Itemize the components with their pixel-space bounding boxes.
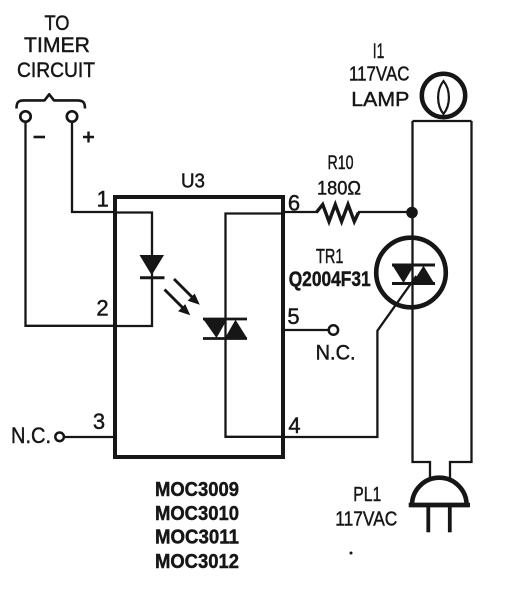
terminal N.C. pin 5: [329, 325, 338, 334]
lamp I1 filament loop: [438, 81, 449, 114]
wire pin 5: [283, 329, 329, 331]
terminal plus: [67, 111, 77, 121]
svg-text:PL1: PL1: [353, 483, 381, 506]
lamp I1 labels: [349, 40, 410, 111]
svg-text:LAMP: LAMP: [351, 88, 409, 111]
label plus: [83, 132, 94, 143]
plug PL1 base: [409, 503, 470, 508]
svg-text:MOC3012: MOC3012: [155, 550, 239, 573]
terminal N.C. pin 3: [55, 433, 64, 442]
wire pin 4: [283, 436, 379, 438]
svg-text:MOC3011: MOC3011: [155, 526, 239, 549]
triac TR1 bottom bar: [392, 282, 435, 285]
opto triac right triangle: [225, 320, 247, 338]
label TO TIMER CIRCUIT: [17, 12, 95, 82]
svg-text:5: 5: [287, 304, 299, 329]
plug PL1 left prong: [426, 507, 430, 532]
svg-text:117VAC: 117VAC: [349, 63, 410, 86]
svg-text:3: 3: [93, 409, 105, 434]
triac TR1 left triangle: [393, 266, 415, 284]
wire pin 3: [64, 436, 115, 438]
plug PL1 right prong: [448, 507, 452, 532]
LED D1 anode triangle: [140, 255, 165, 275]
opto triac symbol top bar: [203, 318, 247, 321]
svg-text:U3: U3: [181, 170, 205, 193]
triac TR1 right triangle: [413, 266, 435, 283]
svg-text:TR1: TR1: [316, 246, 344, 268]
svg-text:180Ω: 180Ω: [317, 178, 361, 200]
light emission arrow 1: [174, 279, 200, 305]
stray dot: [350, 552, 353, 555]
svg-text:4: 4: [288, 413, 300, 438]
wire pin 6 to resistor: [283, 211, 317, 213]
wire minus terminal to pin 2: [26, 123, 116, 326]
junction node dot: [406, 207, 418, 219]
optocoupler U3 box: [115, 197, 283, 457]
wire plus terminal to pin 1: [72, 123, 115, 213]
resistor R10 zigzag: [316, 205, 358, 222]
wire TR1 gate to pin 4: [377, 276, 416, 437]
wire LED loop inside U3: [115, 213, 152, 327]
svg-text:TO: TO: [45, 12, 70, 35]
lamp I1 circle: [422, 74, 465, 117]
plug PL1 labels: [335, 483, 397, 531]
svg-text:CIRCUIT: CIRCUIT: [17, 59, 95, 82]
wire lamp base: [413, 120, 472, 122]
svg-text:2: 2: [96, 296, 108, 321]
terminal minus: [20, 111, 30, 121]
svg-text:TIMER: TIMER: [24, 34, 90, 57]
svg-text:N.C.: N.C.: [11, 423, 51, 448]
svg-text:MOC3010: MOC3010: [155, 502, 239, 525]
LED cathode bar: [140, 276, 165, 279]
svg-text:I1: I1: [373, 40, 385, 63]
wire right branch lamp to plug: [450, 121, 472, 481]
opto triac symbol bottom bar: [203, 337, 247, 340]
brace: [17, 94, 86, 108]
label minus: [34, 136, 46, 139]
opto triac left triangle: [204, 320, 228, 339]
triac TR1 circle: [376, 238, 446, 308]
wire left branch lamp to plug: [413, 121, 431, 481]
svg-text:MOC3009: MOC3009: [155, 478, 239, 501]
svg-text:1: 1: [97, 187, 109, 212]
label MOC part numbers: [155, 478, 239, 573]
svg-text:N.C.: N.C.: [316, 341, 356, 365]
svg-text:R10: R10: [328, 152, 354, 174]
triac TR1 top bar: [392, 264, 435, 267]
light emission arrow 2: [165, 290, 191, 316]
svg-text:117VAC: 117VAC: [335, 508, 397, 531]
wire resistor to junction: [358, 211, 413, 213]
plug PL1 dome: [412, 478, 467, 505]
svg-text:Q2004F31: Q2004F31: [289, 268, 371, 291]
wire triac loop inside U3: [226, 214, 284, 437]
